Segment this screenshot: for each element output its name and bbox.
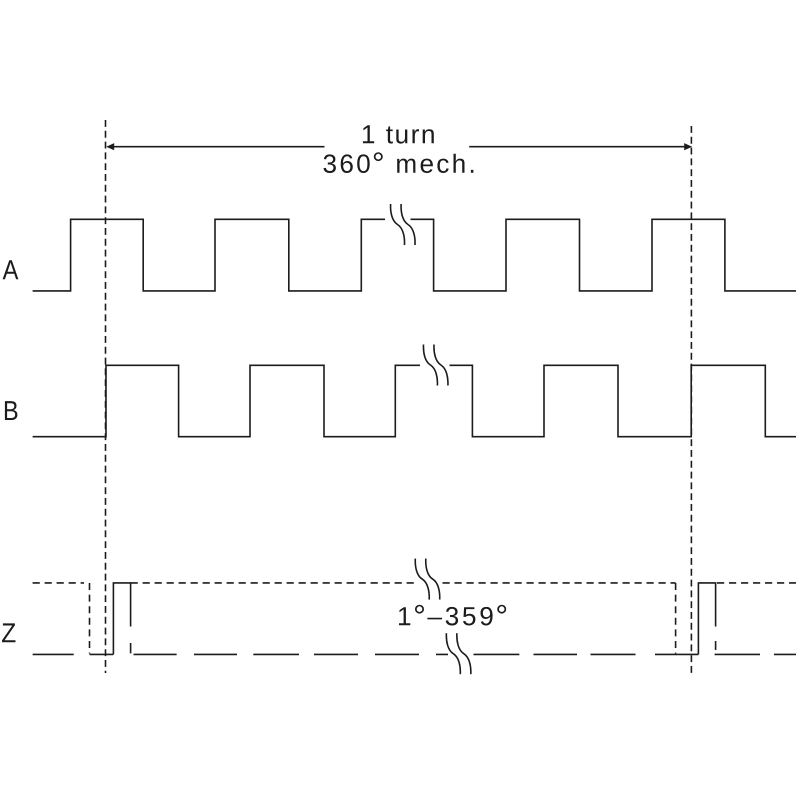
Z max-width outline top dashed line	[33, 582, 796, 584]
channel label A	[3, 260, 19, 279]
left turn marker (dashed vertical)	[105, 120, 107, 673]
dimension arrow right segment	[469, 143, 692, 150]
Z baseline long dashes	[33, 653, 796, 655]
Z dashed trailing edge (right)	[675, 583, 677, 654]
channel label B	[5, 401, 18, 420]
label "1°-359°"	[399, 605, 506, 626]
break mark on Z baseline	[446, 633, 471, 674]
break mark on B	[423, 345, 448, 386]
channel label Z	[2, 623, 16, 642]
waveform B	[33, 365, 796, 436]
Z index pulse at left marker	[113, 583, 130, 655]
right turn marker (dashed vertical)	[690, 126, 692, 673]
waveform A	[33, 219, 796, 291]
break mark on A	[391, 204, 416, 245]
break mark on Z top line	[415, 559, 440, 600]
label "360° mech."	[324, 152, 474, 173]
Z index pulse at right marker	[698, 583, 715, 655]
Z dashed leading edge (left)	[89, 583, 91, 654]
dimension arrow left segment	[106, 143, 324, 150]
label "1 turn"	[363, 125, 434, 143]
